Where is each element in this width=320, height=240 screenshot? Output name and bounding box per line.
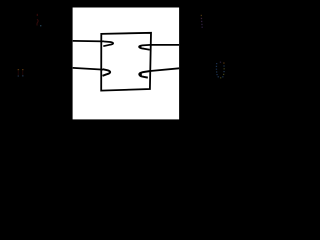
- wire top-right: [150, 44, 179, 46]
- terminal hook top-left: [103, 42, 113, 47]
- terminal hook bottom-right: [139, 71, 150, 78]
- faint dotted artifact top-right: [201, 15, 203, 28]
- wire top-left: [73, 40, 104, 43]
- faint ring artifact right-middle: [216, 62, 225, 79]
- faint text artifact left-middle ("ii"): [18, 69, 24, 77]
- faint text artifact top-left (squiggle): [37, 14, 41, 27]
- wire bottom-left: [73, 68, 103, 70]
- component body (rectangle box): [101, 33, 151, 91]
- terminal hook top-right: [139, 45, 150, 50]
- drawing sheet (white canvas): [73, 8, 180, 120]
- terminal hook bottom-left: [103, 69, 111, 76]
- wire bottom-right: [150, 68, 179, 71]
